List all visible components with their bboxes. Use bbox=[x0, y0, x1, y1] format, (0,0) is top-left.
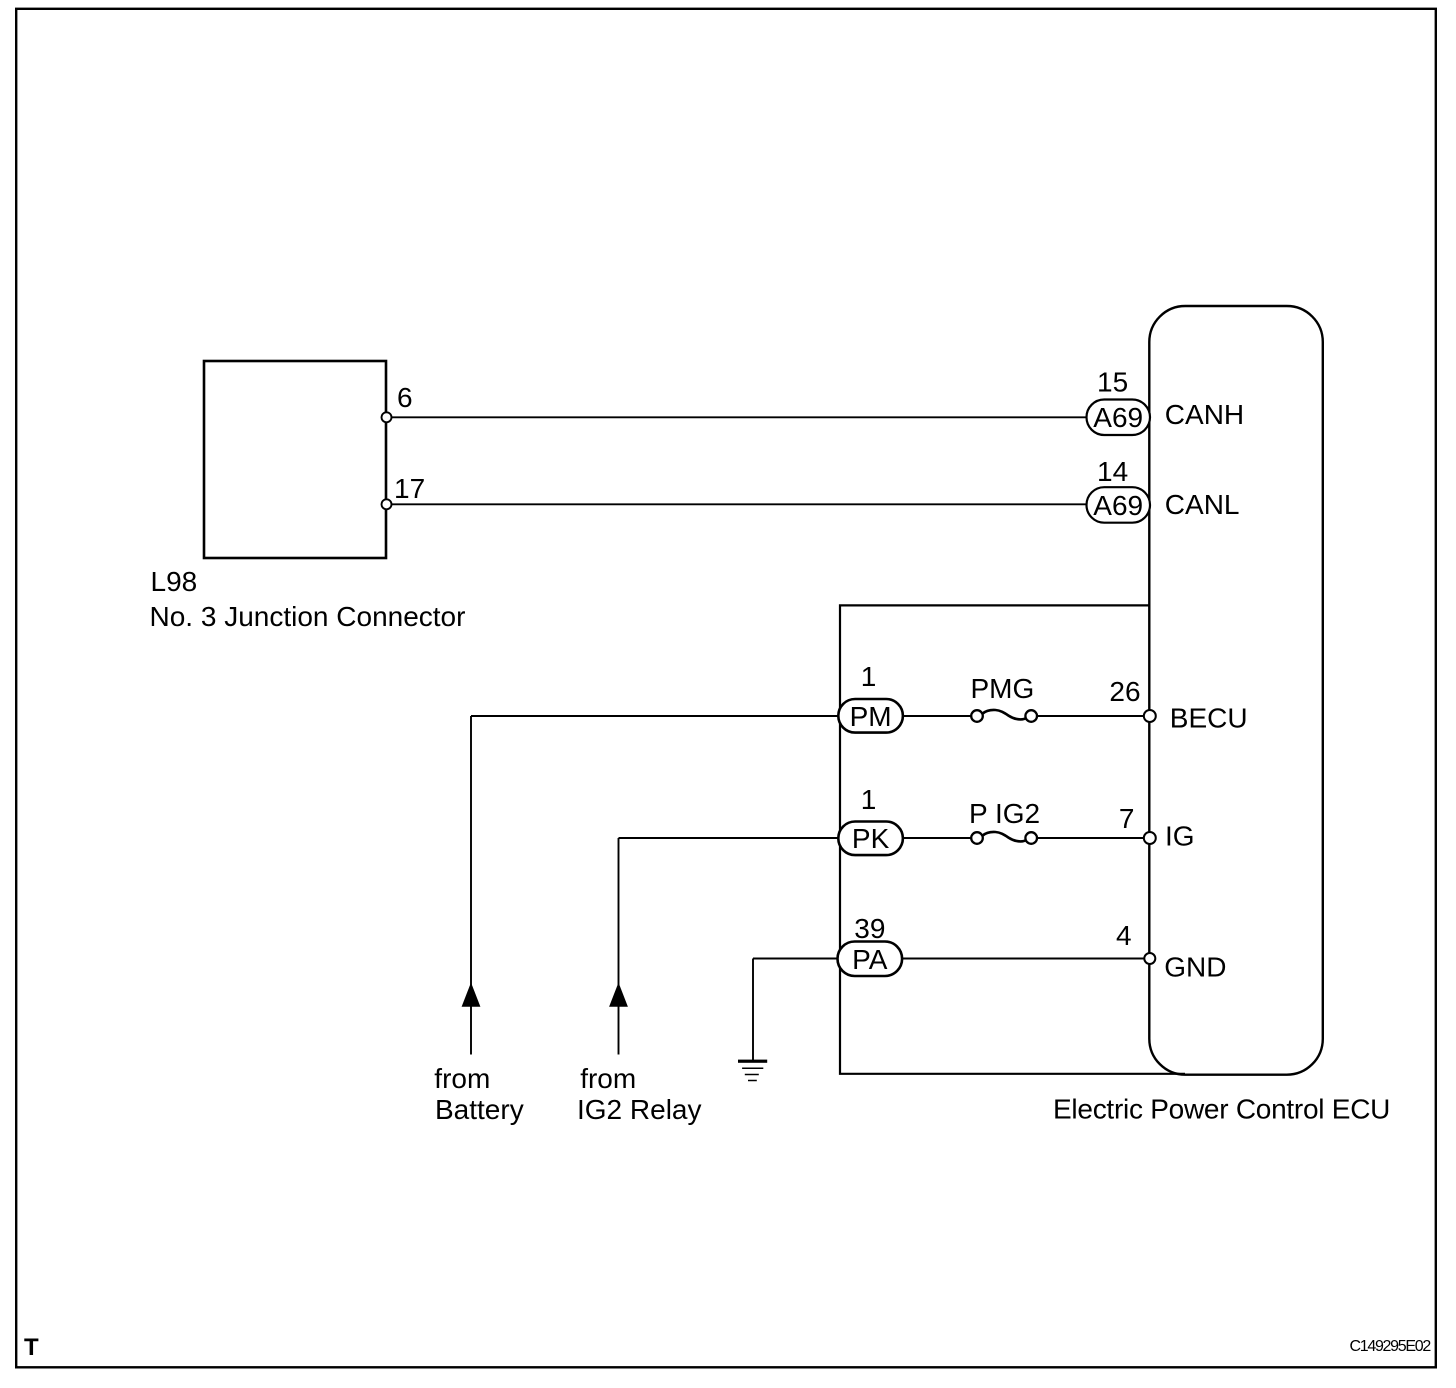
node IG terminal bbox=[1144, 832, 1156, 844]
node BECU terminal bbox=[1144, 710, 1156, 722]
wire battery to PM bbox=[471, 715, 839, 717]
wire PK to fuse PIG2 bbox=[902, 837, 972, 839]
connector A69 pin 14 bbox=[1087, 487, 1151, 523]
junction connector L98 box bbox=[204, 361, 386, 558]
svg-text:CANH: CANH bbox=[1165, 399, 1244, 430]
svg-text:PA: PA bbox=[852, 944, 888, 975]
node GND terminal bbox=[1144, 953, 1155, 964]
connector A69 pin 15 bbox=[1087, 400, 1151, 436]
svg-text:15: 15 bbox=[1097, 367, 1128, 398]
svg-text:BECU: BECU bbox=[1170, 703, 1248, 734]
svg-text:No. 3 Junction Connector: No. 3 Junction Connector bbox=[150, 601, 466, 632]
svg-text:39: 39 bbox=[854, 913, 885, 944]
pin 6 terminal circle bbox=[382, 412, 392, 422]
svg-text:Electric Power Control ECU: Electric Power Control ECU bbox=[1053, 1094, 1390, 1125]
svg-text:A69: A69 bbox=[1093, 402, 1143, 433]
wire PA to GND node bbox=[902, 958, 1145, 960]
svg-text:PK: PK bbox=[852, 823, 890, 854]
arrow from Battery bbox=[462, 983, 481, 1007]
pin 17 terminal circle bbox=[382, 499, 392, 509]
svg-text:14: 14 bbox=[1097, 456, 1128, 487]
svg-text:Battery: Battery bbox=[435, 1094, 524, 1125]
svg-text:1: 1 bbox=[861, 661, 877, 692]
wire PM to fuse PMG bbox=[902, 715, 972, 717]
svg-text:IG: IG bbox=[1165, 821, 1195, 852]
arrow from IG2 Relay bbox=[609, 983, 628, 1007]
svg-text:PM: PM bbox=[850, 701, 892, 732]
fuse P IG2 symbol bbox=[971, 832, 1037, 844]
svg-text:1: 1 bbox=[861, 784, 877, 815]
wire fuse PIG2 to IG node bbox=[1037, 837, 1145, 839]
fuse PMG symbol bbox=[971, 710, 1037, 722]
svg-text:from: from bbox=[580, 1063, 636, 1094]
wire IG2 relay to PK bbox=[619, 837, 840, 839]
wire from IG2 Relay vertical bbox=[618, 838, 620, 1055]
svg-text:C149295E02: C149295E02 bbox=[1350, 1338, 1432, 1355]
inner box around PM PK PA bbox=[840, 605, 1185, 1073]
svg-text:A69: A69 bbox=[1093, 490, 1143, 521]
wire ground to PA bbox=[753, 958, 839, 960]
wire ground drop bbox=[752, 959, 754, 1061]
svg-text:from: from bbox=[434, 1063, 490, 1094]
svg-text:26: 26 bbox=[1109, 676, 1140, 707]
svg-text:GND: GND bbox=[1164, 952, 1226, 983]
wire CANL bbox=[389, 503, 1088, 505]
svg-text:7: 7 bbox=[1119, 803, 1135, 834]
connector PM pin 1 bbox=[838, 699, 903, 733]
svg-text:PMG: PMG bbox=[971, 673, 1035, 704]
svg-text:T: T bbox=[24, 1334, 39, 1361]
svg-text:P IG2: P IG2 bbox=[969, 798, 1040, 829]
connector PK pin 1 bbox=[838, 822, 903, 856]
svg-text:CANL: CANL bbox=[1165, 489, 1240, 520]
svg-text:6: 6 bbox=[397, 382, 413, 413]
wire from Battery vertical bbox=[470, 716, 472, 1055]
ECU outline bbox=[1149, 306, 1323, 1075]
wire fuse PMG to BECU node bbox=[1037, 715, 1145, 717]
svg-text:4: 4 bbox=[1116, 920, 1132, 951]
svg-text:L98: L98 bbox=[151, 566, 198, 597]
connector PA pin 39 bbox=[838, 942, 903, 977]
wire CANH bbox=[389, 416, 1088, 418]
svg-text:IG2 Relay: IG2 Relay bbox=[577, 1094, 702, 1125]
ground symbol bbox=[738, 1060, 767, 1081]
svg-text:17: 17 bbox=[394, 473, 425, 504]
